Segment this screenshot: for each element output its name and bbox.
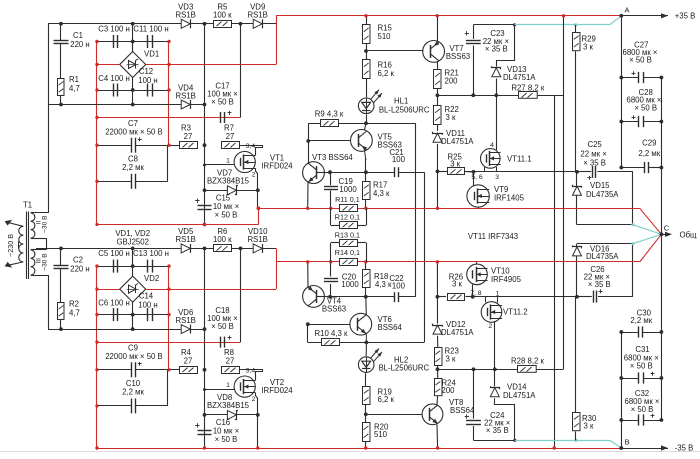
svg-text:22000 мк × 50 В: 22000 мк × 50 В xyxy=(105,128,163,137)
svg-text:BSS63: BSS63 xyxy=(322,305,346,314)
svg-text:1000: 1000 xyxy=(339,185,357,194)
svg-text:C2: C2 xyxy=(73,256,83,265)
svg-text:VT11.2: VT11.2 xyxy=(503,308,528,317)
svg-text:C25: C25 xyxy=(587,140,602,149)
svg-text:C6 100 н: C6 100 н xyxy=(98,299,130,308)
svg-text:200: 200 xyxy=(442,386,456,395)
svg-text:× 50 В: × 50 В xyxy=(211,98,234,107)
svg-text:1: 1 xyxy=(496,291,500,298)
svg-text:4,7: 4,7 xyxy=(69,84,80,93)
svg-text:100 к: 100 к xyxy=(213,235,232,244)
svg-text:3 к: 3 к xyxy=(446,113,457,122)
svg-text:220 н: 220 н xyxy=(70,40,89,49)
svg-text:R2: R2 xyxy=(69,300,79,309)
svg-text:BL-L2506URC: BL-L2506URC xyxy=(379,106,430,115)
svg-text:R12 0,1: R12 0,1 xyxy=(335,213,360,222)
svg-text:2,2 мк: 2,2 мк xyxy=(630,316,652,325)
svg-text:R9 4,3 к: R9 4,3 к xyxy=(315,110,344,119)
svg-text:VD1: VD1 xyxy=(144,50,159,59)
svg-text:IRFD024: IRFD024 xyxy=(261,162,293,171)
svg-text:510: 510 xyxy=(374,430,388,439)
svg-text:RS1B: RS1B xyxy=(248,11,268,20)
svg-text:VT11.1: VT11.1 xyxy=(507,155,532,164)
svg-text:IRFD024: IRFD024 xyxy=(261,386,293,395)
svg-text:R14 0,1: R14 0,1 xyxy=(335,248,360,257)
svg-text:RS1B: RS1B xyxy=(248,235,268,244)
svg-text:3 к: 3 к xyxy=(584,422,595,431)
svg-text:T1: T1 xyxy=(23,201,32,210)
svg-text:BZX384B15: BZX384B15 xyxy=(207,177,250,186)
svg-text:C12: C12 xyxy=(139,67,153,76)
svg-text:510: 510 xyxy=(378,32,392,41)
svg-text:C4 100 н: C4 100 н xyxy=(98,74,130,83)
svg-text:A: A xyxy=(624,6,629,15)
svg-text:DL4735A: DL4735A xyxy=(586,190,619,199)
svg-text:DL4751A: DL4751A xyxy=(503,391,536,400)
svg-text:C29: C29 xyxy=(642,138,656,147)
svg-text:4: 4 xyxy=(490,142,494,149)
svg-text:2,2 мк: 2,2 мк xyxy=(638,149,660,158)
svg-text:22 мк ×: 22 мк × xyxy=(580,150,607,159)
svg-text:1: 1 xyxy=(226,382,230,389)
svg-text:BSS64: BSS64 xyxy=(378,323,403,332)
svg-text:RS1B: RS1B xyxy=(176,235,196,244)
svg-text:BSS64: BSS64 xyxy=(450,406,475,415)
svg-text:C1: C1 xyxy=(73,31,83,40)
svg-text:B: B xyxy=(624,438,629,447)
svg-text:27: 27 xyxy=(184,132,193,141)
svg-text:DL4751A: DL4751A xyxy=(441,328,474,337)
svg-text:R11 0,1: R11 0,1 xyxy=(335,195,360,204)
svg-text:VD15: VD15 xyxy=(590,181,610,190)
svg-text:× 35 В: × 35 В xyxy=(486,426,509,435)
svg-text:6,2 к: 6,2 к xyxy=(378,69,395,78)
svg-text:200: 200 xyxy=(445,77,459,86)
svg-text:× 50 В: × 50 В xyxy=(211,322,234,331)
svg-text:× 35 В: × 35 В xyxy=(588,280,611,289)
svg-text:5, 6: 5, 6 xyxy=(471,174,483,181)
svg-text:IRF4905: IRF4905 xyxy=(491,275,522,284)
svg-text:+35 В: +35 В xyxy=(675,11,696,20)
svg-text:GBJ2502: GBJ2502 xyxy=(116,237,149,246)
svg-text:100: 100 xyxy=(392,282,406,291)
svg-text:2,2 мк: 2,2 мк xyxy=(122,388,144,397)
svg-text:VD2: VD2 xyxy=(144,274,159,283)
svg-text:BSS63: BSS63 xyxy=(446,52,470,61)
svg-text:× 50 В: × 50 В xyxy=(634,103,657,112)
svg-text:3: 3 xyxy=(495,174,499,181)
svg-text:C11 100 н: C11 100 н xyxy=(133,24,168,33)
svg-text:100 к: 100 к xyxy=(213,11,232,20)
svg-text:3,4: 3,4 xyxy=(246,143,256,150)
svg-text:VT11 IRF7343: VT11 IRF7343 xyxy=(468,232,518,241)
svg-text:× 50 В: × 50 В xyxy=(215,435,238,444)
svg-text:3 к: 3 к xyxy=(583,43,594,52)
svg-text:7, 8: 7, 8 xyxy=(470,290,482,297)
svg-text:DL4751A: DL4751A xyxy=(503,73,536,82)
svg-text:3 к: 3 к xyxy=(452,280,463,289)
svg-text:100 н: 100 н xyxy=(138,76,157,85)
svg-text:2: 2 xyxy=(488,323,492,330)
svg-text:× 35 В: × 35 В xyxy=(485,45,508,54)
svg-text:2: 2 xyxy=(252,172,256,179)
svg-text:BL-L2506URC: BL-L2506URC xyxy=(378,364,429,373)
svg-text:C3 100 н: C3 100 н xyxy=(98,24,130,33)
svg-text:3 к: 3 к xyxy=(450,159,461,168)
svg-text:220 н: 220 н xyxy=(70,265,89,274)
svg-text:IRF1405: IRF1405 xyxy=(494,194,525,203)
svg-text:27: 27 xyxy=(226,132,235,141)
svg-text:2: 2 xyxy=(252,396,256,403)
svg-text:C13 100 н: C13 100 н xyxy=(133,249,169,258)
svg-text:6,2 к: 6,2 к xyxy=(378,395,395,404)
svg-text:R28 8,2 к: R28 8,2 к xyxy=(511,356,544,365)
svg-text:1000: 1000 xyxy=(341,280,359,289)
svg-text:× 50 В: × 50 В xyxy=(631,405,654,414)
svg-text:Общ: Общ xyxy=(680,230,698,239)
svg-text:~30 В: ~30 В xyxy=(42,253,49,271)
svg-text:4,3 к: 4,3 к xyxy=(373,189,390,198)
svg-text:RS1B: RS1B xyxy=(176,92,196,101)
svg-text:C14: C14 xyxy=(139,292,154,301)
svg-text:R27 8,2 к: R27 8,2 к xyxy=(511,83,544,92)
svg-text:DL4735A: DL4735A xyxy=(586,252,619,261)
svg-text:DL4751A: DL4751A xyxy=(441,137,474,146)
svg-text:× 50 В: × 50 В xyxy=(630,361,653,370)
svg-text:R13 0,1: R13 0,1 xyxy=(335,230,360,239)
svg-text:× 50 В: × 50 В xyxy=(215,211,238,220)
svg-text:2,2 мк: 2,2 мк xyxy=(122,163,144,172)
svg-text:× 35 В: × 35 В xyxy=(583,159,606,168)
svg-text:BZX384B15: BZX384B15 xyxy=(207,401,250,410)
svg-text:R1: R1 xyxy=(69,75,79,84)
svg-text:~230 В: ~230 В xyxy=(6,234,15,257)
svg-text:100: 100 xyxy=(392,155,406,164)
svg-text:~30 В: ~30 В xyxy=(42,215,49,233)
svg-text:4,7: 4,7 xyxy=(69,309,80,318)
svg-text:22000 мк × 50 В: 22000 мк × 50 В xyxy=(105,352,163,361)
svg-text:RS1B: RS1B xyxy=(176,316,196,325)
svg-text:C: C xyxy=(664,224,670,233)
svg-text:1: 1 xyxy=(226,158,230,165)
svg-text:VT3 BSS64: VT3 BSS64 xyxy=(312,153,353,162)
svg-text:R10 4,3 к: R10 4,3 к xyxy=(315,329,348,338)
svg-text:HL1: HL1 xyxy=(394,97,408,106)
svg-text:C5 100 н: C5 100 н xyxy=(98,249,130,258)
svg-text:× 50 В: × 50 В xyxy=(629,56,652,65)
svg-text:3,4: 3,4 xyxy=(246,367,256,374)
svg-text:27: 27 xyxy=(226,357,235,366)
svg-text:100 н: 100 н xyxy=(138,301,157,310)
svg-text:27: 27 xyxy=(184,357,193,366)
svg-text:3 к: 3 к xyxy=(446,354,457,363)
svg-text:RS1B: RS1B xyxy=(176,11,196,20)
